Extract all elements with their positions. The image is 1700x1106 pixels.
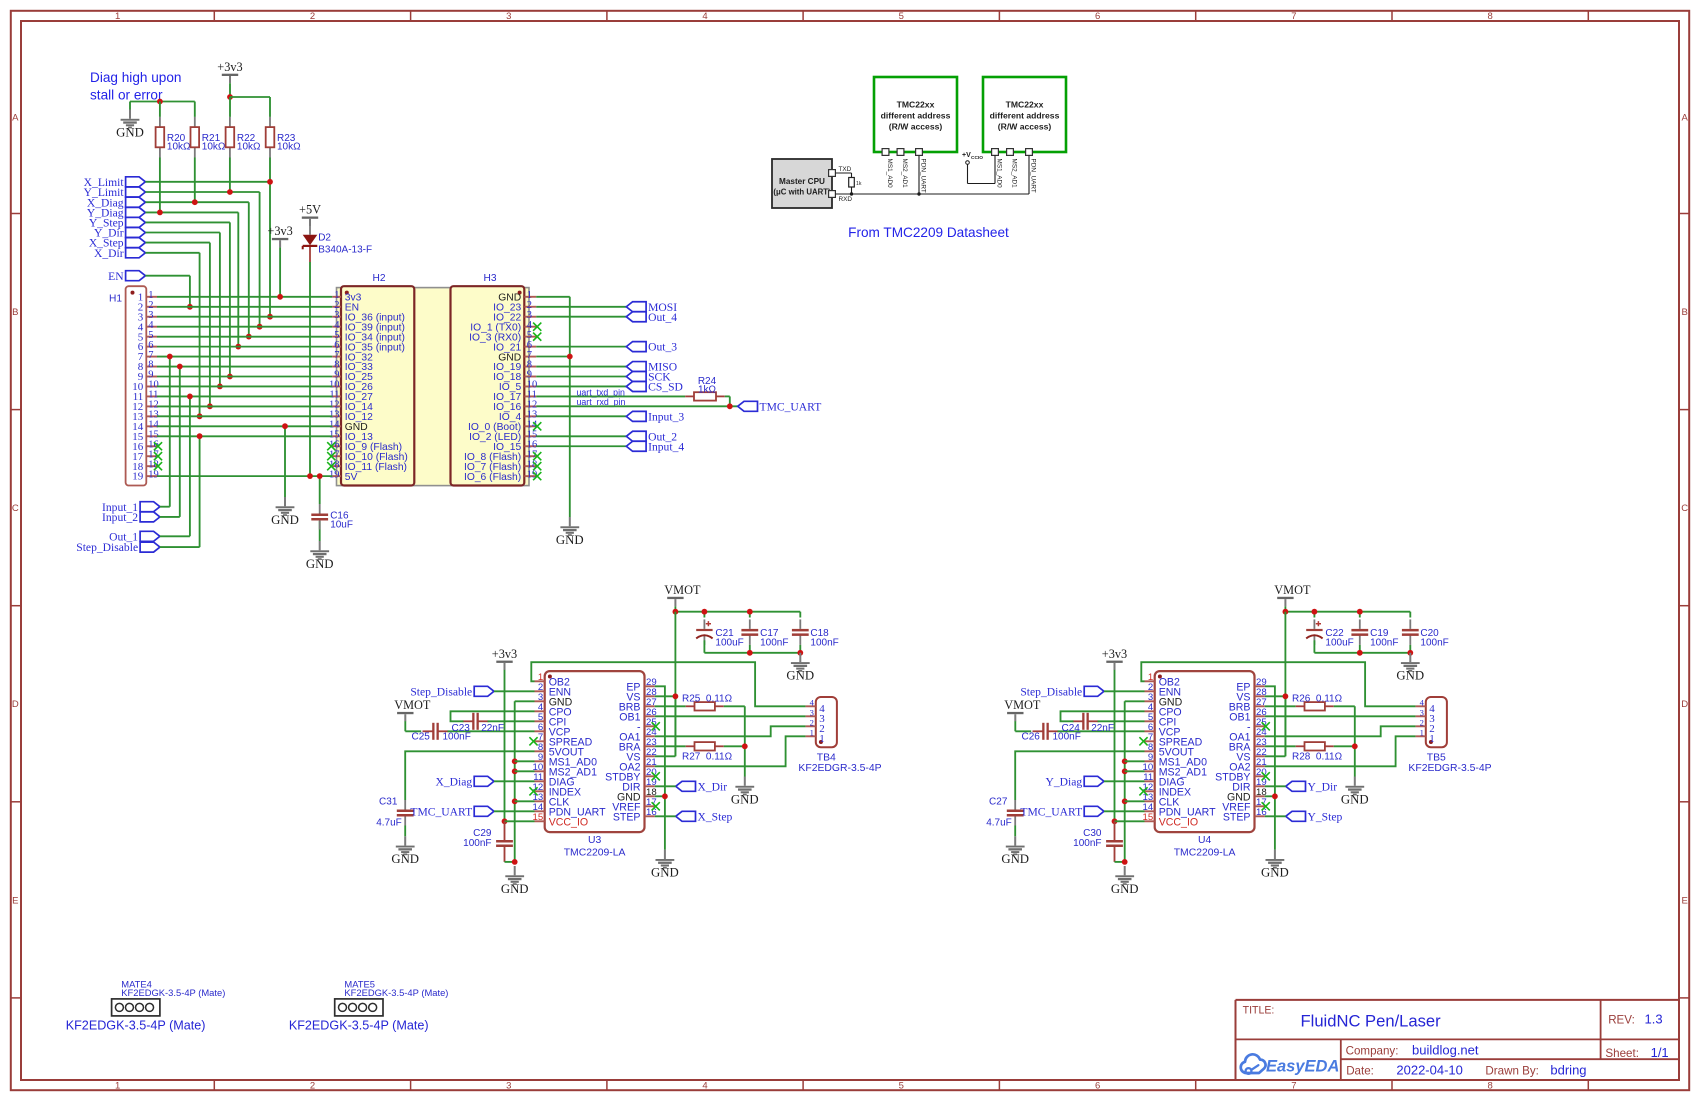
svg-text:3: 3 (506, 11, 511, 22)
wire H1.12 to H2.12 (157, 405, 332, 407)
label U4 (1198, 835, 1212, 846)
power VMOT (bank C21) (664, 583, 701, 606)
title FluidNC Pen/Laser (1301, 1012, 1442, 1031)
node junction Y_Diag row6 (235, 344, 241, 350)
wire cap bank bottom (1314, 640, 1410, 653)
wire GND net (U3) (505, 701, 535, 862)
node junction C20 bottom (1407, 650, 1413, 656)
node junction sense GND (U3) (742, 743, 748, 749)
node junction C19 top (1357, 609, 1363, 615)
label TB4 (817, 752, 836, 763)
wire H3.3 to Out_4 (536, 316, 626, 318)
node junction MS1 (U3) (512, 758, 518, 764)
node junction Step_Disable row15 (197, 433, 203, 439)
ground GND (below U3 right) (651, 850, 679, 880)
svg-text:+5V: +5V (299, 203, 321, 217)
svg-text:TXD: TXD (839, 166, 852, 173)
svg-text:1: 1 (1420, 727, 1424, 737)
power +3v3 (pull-up rail) (217, 60, 242, 97)
svg-text:4.7uF: 4.7uF (986, 817, 1012, 828)
label C25 100nF (412, 732, 471, 743)
svg-text:RXD: RXD (839, 196, 853, 203)
wire STEP (U4) (1265, 815, 1286, 817)
node junction C16 row19 (317, 473, 323, 479)
net flag Input_2 (102, 511, 160, 524)
svg-text:PDN_UART: PDN_UART (920, 159, 927, 193)
wire H3.9 to SCK (536, 376, 626, 378)
wire R25 to GND (724, 706, 745, 776)
svg-text:4: 4 (702, 11, 707, 22)
wire H1.9 to H2.9 (157, 376, 332, 378)
net flag TMC_UART (U4) (1020, 805, 1104, 818)
wire net Y_Diag (145, 158, 238, 347)
capacitor C18 (792, 619, 809, 645)
capacitor C22 (polarized) (1306, 619, 1322, 645)
svg-text:Input_3: Input_3 (648, 410, 684, 423)
svg-text:MS1_AD0: MS1_AD0 (996, 159, 1003, 189)
svg-text:6: 6 (1095, 1080, 1100, 1091)
wire H3.11 to R24 (536, 395, 685, 397)
wire H1.6 to H2.6 (157, 346, 332, 348)
svg-text:10kΩ: 10kΩ (237, 141, 261, 152)
svg-text:TMC_UART: TMC_UART (1020, 805, 1082, 818)
wire ENN (U4) (1104, 690, 1145, 692)
svg-text:GND: GND (1341, 792, 1369, 806)
wire H1.10 to H2.10 (157, 385, 332, 387)
wire ENN (U3) (494, 690, 535, 692)
node junction CLK (U4) (1122, 798, 1128, 804)
wire MS2_AD1 (U3) (515, 770, 535, 772)
svg-text:STEP: STEP (1223, 812, 1251, 824)
label R22 10kΩ (237, 133, 261, 153)
node junction C17 bottom (747, 650, 753, 656)
node junction C19 bottom (1357, 650, 1363, 656)
capacitor C24 (1073, 713, 1099, 730)
wire H3.1 GND net (536, 297, 570, 517)
connector H1 (109, 286, 162, 485)
node junction +3v3 rail (227, 94, 233, 100)
block TMC22xx #1 (874, 77, 957, 152)
ground GND (below C31) (391, 836, 419, 866)
node junction Y_Diag/R20 (157, 210, 163, 216)
svg-text:MS1_AD0: MS1_AD0 (886, 159, 893, 189)
ground GND (sense U4) (1341, 777, 1369, 807)
wire C29 to GND net (505, 847, 515, 862)
svg-text:TMC2209-LA: TMC2209-LA (1174, 847, 1236, 858)
svg-text:buildlog.net: buildlog.net (1412, 1043, 1479, 1058)
label C22 100uF (1325, 628, 1353, 648)
svg-text:10kΩ: 10kΩ (202, 141, 226, 152)
svg-text:GND: GND (391, 852, 419, 866)
wire GND pin18 (U3) (655, 795, 665, 797)
svg-text:GND: GND (1261, 866, 1289, 880)
power +3v3 (module) (267, 224, 292, 297)
wire H3.15 to Out_2 (536, 435, 626, 437)
svg-text:+3v3: +3v3 (267, 224, 292, 238)
svg-text:X_Dir: X_Dir (698, 780, 728, 793)
wire CLK (U4) (1125, 800, 1145, 802)
wire R28 junction (1334, 745, 1355, 747)
svg-text:4: 4 (1420, 697, 1425, 707)
pins Master CPU TXD RXD (829, 166, 853, 203)
caption From TMC2209 Datasheet (848, 225, 1009, 240)
wire H3.6 to Out_3 (536, 346, 626, 348)
wire OB1 to TB4.3 (655, 715, 806, 717)
wire H1.1 to H2.1 (157, 296, 332, 298)
power VMOT (charge pump U3) (394, 698, 431, 721)
node junction GND18 (U3) (662, 793, 668, 799)
svg-text:VMOT: VMOT (1004, 698, 1041, 712)
power +3v3 (U3) (492, 647, 517, 670)
wire GND net (U4) (1115, 701, 1145, 862)
node junction Input_1 row7 (167, 354, 173, 360)
svg-text:H1: H1 (109, 293, 122, 304)
wire H3.8 to MISO (536, 366, 626, 368)
svg-text:KF2EDGK-3.5-4P (Mate): KF2EDGK-3.5-4P (Mate) (344, 987, 448, 998)
svg-text:U3: U3 (588, 835, 602, 846)
svg-text:1k: 1k (856, 181, 862, 187)
node junction Y_Dir row10 (217, 384, 223, 390)
net flag X_Limit (84, 176, 146, 189)
svg-text:KF2EDGK-3.5-4P (Mate): KF2EDGK-3.5-4P (Mate) (289, 1019, 429, 1033)
wire H3.12 to TMC_UART (536, 405, 738, 407)
svg-text:3: 3 (1420, 707, 1424, 717)
label R21 10kΩ (202, 133, 226, 153)
node junction X_Diag row5 (246, 334, 252, 340)
connector MATE5 (289, 978, 449, 1032)
wire R20 top stub (159, 102, 161, 117)
wire BRA to R28 (1265, 745, 1296, 747)
resistor R27 (686, 742, 724, 750)
node junction R20 top (157, 99, 163, 105)
svg-text:STEP: STEP (613, 812, 641, 824)
node junction CLK (U3) (512, 798, 518, 804)
wire CPO (U3) (451, 711, 535, 721)
net flag MISO (626, 361, 677, 374)
wire Input_2 to row8 (160, 367, 180, 517)
svg-text:22nF: 22nF (1091, 723, 1114, 734)
node junction GND18 (U4) (1272, 793, 1278, 799)
wire OB2 to TB5.4 (1141, 662, 1415, 706)
svg-text:GND: GND (501, 882, 529, 896)
label C29 100nF (463, 828, 492, 849)
svg-text:8: 8 (1488, 1080, 1493, 1091)
svg-text:10uF: 10uF (330, 520, 353, 531)
wire MS1_AD0 (U3) (515, 760, 535, 762)
wire VCP (U4) (1058, 730, 1145, 732)
wire +3v3 to VCC_IO (U4) (1114, 670, 1116, 821)
node junction resistor/RXD (850, 192, 853, 195)
ground GND (below U4 left) (1111, 866, 1139, 896)
svg-text:From TMC2209 Datasheet: From TMC2209 Datasheet (848, 225, 1009, 240)
net flag X_Step (89, 237, 146, 250)
net flag Y_Dir (U4) (1286, 780, 1338, 793)
svg-text:E: E (12, 895, 18, 906)
wire VMOT to C26 (U4) (1015, 721, 1031, 731)
node junction C21 top (702, 609, 708, 615)
svg-text:2022-04-10: 2022-04-10 (1396, 1063, 1463, 1078)
ground GND (cap bank) (1396, 653, 1424, 683)
svg-text:C23: C23 (452, 723, 471, 734)
net flag X_Dir (94, 247, 145, 260)
svg-text:1: 1 (115, 11, 120, 22)
label C23 22nF (452, 723, 504, 734)
svg-text:C: C (1681, 503, 1688, 514)
node junction VCC_IO (U3) (502, 818, 508, 824)
wire H1.5 to H2.5 (157, 336, 332, 338)
label R28 0.11Ω (1292, 752, 1343, 763)
svg-text:+3v3: +3v3 (217, 60, 242, 74)
resistor R28 (1296, 742, 1334, 750)
node junction Y_Step row9 (227, 374, 233, 380)
svg-text:GND: GND (556, 533, 584, 547)
label C20 100nF (1420, 628, 1448, 648)
svg-text:EasyEDA: EasyEDA (1266, 1058, 1339, 1076)
capacitor C21 (polarized) (696, 619, 712, 645)
net label uart_rxd_pin (577, 397, 626, 407)
wire C31 to GND (404, 826, 406, 837)
svg-text:GND: GND (786, 669, 814, 683)
svg-text:4: 4 (810, 697, 815, 707)
capacitor C26 (1033, 723, 1059, 740)
svg-text:GND: GND (306, 557, 334, 571)
svg-text:R26 0.11Ω: R26 0.11Ω (1292, 693, 1343, 704)
capacitor C30 (1106, 840, 1123, 847)
label C19 100nF (1370, 628, 1398, 648)
svg-text:1kΩ: 1kΩ (698, 385, 717, 396)
svg-text:different address: different address (990, 111, 1060, 121)
wire R21 top stub (194, 102, 196, 117)
label R23 10kΩ (277, 133, 301, 153)
wire CLK (U3) (515, 800, 535, 802)
wire RXD bus (835, 155, 1029, 194)
net flag Step_Disable (U3) (410, 685, 494, 698)
net flag Y_Dir (94, 227, 145, 240)
ground GND (below C16) (306, 541, 334, 571)
wire VCC_IO to C29 (504, 821, 506, 840)
svg-text:4.7uF: 4.7uF (376, 817, 402, 828)
title block REV (1608, 1012, 1662, 1027)
svg-text:(R/W access): (R/W access) (889, 122, 943, 132)
connector TB4 (806, 697, 837, 747)
wire CPO (U4) (1061, 711, 1145, 721)
svg-text:100uF: 100uF (1325, 637, 1353, 648)
svg-text:B: B (1682, 307, 1688, 318)
svg-text:Out_3: Out_3 (648, 341, 677, 354)
svg-text:MS2_AD1: MS2_AD1 (901, 159, 908, 189)
wire D2 to 5V row19 (309, 262, 311, 476)
wire VMOT to VS pins (U3) (655, 612, 676, 757)
node junction VMOT stem (673, 609, 679, 615)
ground GND (below H3) (556, 517, 584, 547)
node junction Y_Limit/R22 (227, 189, 233, 195)
svg-text:22nF: 22nF (481, 723, 504, 734)
svg-text:KF2EDGK-3.5-4P (Mate): KF2EDGK-3.5-4P (Mate) (66, 1019, 206, 1033)
svg-text:100nF: 100nF (760, 637, 788, 648)
pins TMC22xx #1 (882, 149, 926, 193)
wire GND pin18 (U4) (1265, 795, 1275, 797)
ground GND (sense U3) (731, 777, 759, 807)
node junction X_Dir row13 (197, 413, 203, 419)
wire net Y_Dir (145, 233, 220, 387)
label C31 4.7uF (376, 797, 402, 829)
wire net X_Diag (145, 158, 248, 337)
title block TITLE (1243, 1005, 1275, 1017)
wire +3v3 rail to R23 (230, 97, 270, 117)
svg-text:2: 2 (1420, 717, 1424, 727)
wire DIAG (U3) (494, 780, 535, 782)
power +3v3 (U4) (1102, 647, 1127, 670)
connector TB5 (1416, 697, 1447, 747)
wire DIR (U3) (655, 785, 676, 787)
label C17 100nF (760, 628, 788, 648)
node junction MS1 (U4) (1122, 758, 1128, 764)
wire H1.3 to H2.3 (157, 316, 332, 318)
net flag Input_4 (626, 440, 684, 453)
svg-text:Date:: Date: (1346, 1065, 1374, 1078)
ground GND (below C27) (1001, 836, 1029, 866)
wire H3.2 to MOSI (536, 306, 626, 308)
label R24 1kΩ (698, 376, 717, 395)
svg-text:19: 19 (132, 471, 144, 483)
svg-text:Step_Disable: Step_Disable (76, 541, 138, 554)
wire H1.2 to H2.2 (157, 306, 332, 308)
svg-text:CS_SD: CS_SD (648, 381, 683, 394)
net flag Y_Step (89, 217, 146, 230)
svg-text:10kΩ: 10kΩ (277, 141, 301, 152)
capacitor C17 (741, 619, 758, 645)
svg-text:1/1: 1/1 (1651, 1045, 1669, 1060)
svg-text:7: 7 (1291, 11, 1296, 22)
net flag Y_Diag (87, 207, 146, 220)
node junction X_Limit row3 (267, 314, 273, 320)
label C26 100nF (1022, 732, 1081, 743)
wire VCP (U3) (448, 730, 535, 732)
svg-text:PDN_UART: PDN_UART (1030, 159, 1037, 193)
svg-text:A: A (1682, 113, 1689, 124)
label R20 10kΩ (167, 133, 191, 153)
ground GND (below H1-H2) (271, 497, 299, 527)
svg-text:VCC_IO: VCC_IO (1159, 817, 1198, 829)
wire C27 to GND (1014, 826, 1016, 837)
wire CPI (U3) (488, 720, 535, 722)
net flag TMC_UART (U3) (410, 805, 494, 818)
power VMOT (charge pump U4) (1004, 698, 1041, 721)
node junction PDN bus (917, 192, 920, 195)
svg-text:100nF: 100nF (1370, 637, 1398, 648)
net flag Y_Diag (U4) (1045, 775, 1104, 788)
power VMOT (bank C22) (1274, 583, 1311, 606)
label TMC2209-LA (U4) (1174, 847, 1236, 858)
label R26 0.11Ω (1292, 693, 1343, 704)
module outline (gray/yellow) (337, 288, 530, 486)
net flag Y_Step (U4) (1286, 810, 1343, 823)
connector MATE4 (66, 978, 226, 1032)
label C16 10uF (330, 510, 353, 530)
node junction C bottom (U3) (512, 859, 518, 865)
logo EasyEDA (1241, 1054, 1340, 1075)
net flag X_Diag (87, 196, 146, 209)
wire net X_Dir (145, 253, 199, 416)
svg-text:19: 19 (148, 469, 159, 480)
node junction VMOT stem (1283, 609, 1289, 615)
svg-text:Sheet:: Sheet: (1605, 1047, 1639, 1060)
wire EP to GND (U4) (1265, 686, 1275, 849)
wire H1.4 to H2.4 (157, 326, 332, 328)
svg-text:X_Dir: X_Dir (94, 247, 124, 260)
wire Input_1 to row7 (160, 357, 170, 507)
svg-text:3: 3 (810, 707, 814, 717)
wire R24 to row12 (725, 396, 730, 406)
wire BRB to R25 (655, 705, 686, 707)
wire VCC_IO to C30 (1114, 821, 1116, 840)
svg-text:Input_2: Input_2 (102, 511, 138, 524)
wire CPI (U4) (1098, 720, 1145, 722)
IC U3 TMC2209-LA (529, 671, 659, 832)
wire C30 to GND net (1115, 847, 1125, 862)
wire Out_1 to row11 (160, 396, 190, 536)
svg-text:100nF: 100nF (463, 838, 491, 849)
svg-text:(μC with UART): (μC with UART) (773, 188, 831, 197)
svg-text:1: 1 (810, 727, 814, 737)
capacitor C27 (1007, 800, 1024, 826)
wire H3.10 to CS_SD (536, 385, 626, 387)
title block frame (1236, 1000, 1681, 1080)
wire Step_Disable to row15 (160, 436, 200, 547)
node junction GND row14 (282, 423, 288, 429)
net flag Y_Limit (84, 186, 146, 199)
capacitor C31 (397, 800, 414, 826)
svg-text:Company:: Company: (1346, 1045, 1399, 1058)
wire H1.11 to H2.11 (157, 395, 332, 397)
wire H1.8 to H2.8 (157, 366, 332, 368)
net flag Out_3 (626, 341, 677, 354)
label C27 4.7uF (986, 797, 1012, 829)
svg-text:5: 5 (899, 11, 904, 22)
net flag SCK (626, 371, 671, 384)
label KF2EDGR-3.5-4P (TB5) (1408, 763, 1491, 774)
wire OA1 to TB4.2 (655, 726, 806, 736)
net flag EN (108, 270, 145, 283)
node junction C18 bottom (797, 650, 803, 656)
svg-text:R25 0.11Ω: R25 0.11Ω (682, 693, 733, 704)
svg-text:H3: H3 (483, 273, 496, 284)
connector H3 (module right) (451, 273, 542, 486)
svg-text:TB4: TB4 (817, 752, 836, 763)
capacitor C25 (423, 723, 449, 740)
power +5V (299, 203, 321, 226)
svg-text:1: 1 (115, 1080, 120, 1091)
svg-text:D2: D2 (318, 232, 331, 243)
wire VMOT to C25 (U3) (405, 721, 421, 731)
ground GND (below U4 right) (1261, 850, 1289, 880)
wire H1.15 to H2.15 (157, 435, 332, 437)
svg-text:D: D (1681, 699, 1688, 710)
label TMC2209-LA (U3) (564, 847, 626, 858)
wire DIR (U4) (1265, 785, 1286, 787)
svg-text:bdring: bdring (1550, 1063, 1586, 1078)
resistor R25 (686, 702, 724, 710)
wire H3.7 GND (536, 356, 570, 358)
capacitor C19 (1351, 619, 1368, 645)
svg-text:VMOT: VMOT (664, 583, 701, 597)
connector H2 (module left) (327, 273, 414, 486)
wire OA1 to TB5.2 (1265, 726, 1416, 736)
wire PDN_UART (U3) (494, 810, 535, 812)
net flag Step_Disable (U4) (1020, 685, 1104, 698)
net flag TMC_UART (H3) (738, 400, 822, 413)
svg-text:C26: C26 (1022, 732, 1041, 743)
